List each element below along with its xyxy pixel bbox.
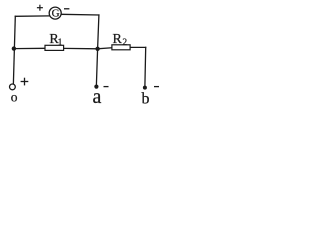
resistor R1 body [45, 45, 64, 50]
svg-text:a: a [93, 86, 102, 108]
junction node left [12, 46, 16, 50]
generator plus sign [37, 5, 43, 11]
svg-text:o: o [11, 90, 18, 105]
wire middle right segment [131, 46, 146, 48]
terminal o open circle [10, 84, 16, 90]
svg-text:2: 2 [122, 38, 127, 48]
wire top-left horizontal [15, 15, 49, 17]
wire middle between R1 and node a [64, 47, 97, 49]
terminal o plus sign [21, 78, 29, 86]
generator minus sign [64, 8, 69, 10]
svg-text:b: b [142, 91, 150, 108]
terminal a dot [94, 85, 98, 89]
terminal b dot [143, 86, 147, 90]
terminal b minus sign [154, 86, 159, 88]
wire left vertical [13, 16, 15, 83]
resistor R2 body [112, 45, 130, 50]
svg-text:R: R [113, 32, 123, 47]
junction node a on middle wire [95, 47, 99, 51]
wire middle left segment [14, 47, 45, 49]
wire right vertical (top to node a) [96, 15, 99, 85]
wire middle between node a and R2 [98, 48, 112, 49]
wire right outer vertical (to node b) [144, 47, 147, 86]
svg-text:1: 1 [58, 38, 63, 48]
terminal a minus sign [104, 86, 109, 88]
wire top-right horizontal [62, 13, 99, 16]
generator U1 circle [49, 7, 61, 19]
svg-text:G: G [52, 8, 60, 20]
